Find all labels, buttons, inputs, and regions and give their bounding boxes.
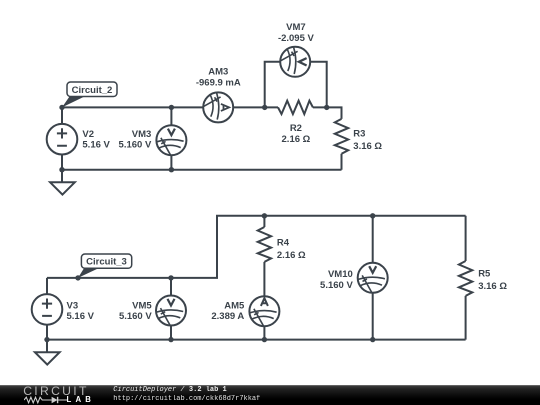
svg-text:VM3: VM3 [132,129,152,140]
svg-text:5.160 V: 5.160 V [119,311,152,322]
svg-text:AM5: AM5 [224,301,245,312]
svg-text:5.16 V: 5.16 V [67,311,95,322]
svg-text:R3: R3 [353,129,365,140]
svg-text:R2: R2 [290,123,302,134]
svg-text:VM7: VM7 [286,22,306,33]
svg-text:5.160 V: 5.160 V [119,140,152,151]
svg-text:VM5: VM5 [132,300,152,311]
svg-text:2.16 Ω: 2.16 Ω [282,134,311,145]
svg-text:2.389 A: 2.389 A [211,311,244,322]
svg-text:-2.095 V: -2.095 V [278,33,315,44]
svg-text:5.16 V: 5.16 V [82,140,110,151]
svg-text:R5: R5 [478,268,491,279]
svg-text:R4: R4 [277,238,290,249]
svg-text:VM10: VM10 [328,269,353,280]
svg-text:3.16 Ω: 3.16 Ω [478,281,507,292]
svg-text:-969.9 mA: -969.9 mA [196,78,241,89]
svg-text:V3: V3 [67,300,79,311]
svg-text:5.160 V: 5.160 V [320,280,353,291]
svg-text:2.16 Ω: 2.16 Ω [277,250,306,261]
svg-text:AM3: AM3 [208,67,228,78]
svg-text:3.16 Ω: 3.16 Ω [353,141,382,152]
svg-text:V2: V2 [82,129,94,140]
svg-text:Circuit_3: Circuit_3 [86,257,127,268]
svg-text:Circuit_2: Circuit_2 [72,85,113,96]
